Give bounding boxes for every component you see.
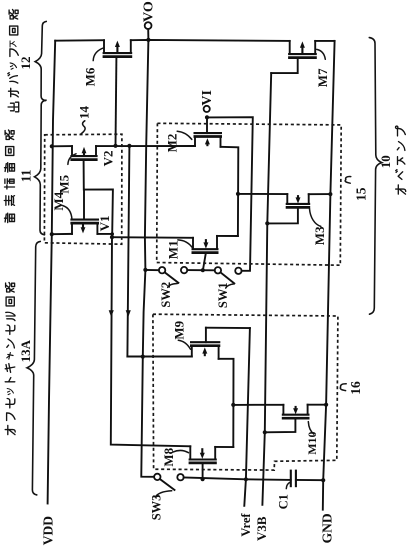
brace 10 (op amp, right side) [369,38,382,315]
label C1 leader hook [286,482,290,488]
wire sampling node (SW3 right to C1) [184,477,291,480]
wire V3B bias line (M7 gate down to V3B terminal) [262,73,271,505]
node C1 to GND line dot [321,478,325,482]
wire top rail left segment (VDD corner to M6 source) [55,39,104,42]
transistor M4 (PMOS diode-connected) [70,190,99,234]
wire M2 drain to mid vertical [221,147,239,236]
label SW1 leader hook [226,284,234,288]
label SW2 leader hook [168,284,178,288]
svg-text:VO: VO [142,1,157,22]
svg-text:M1: M1 [166,240,181,259]
transistor M5 (PMOS) [70,146,113,234]
wire VO line down to SW3 and M9 [141,270,154,477]
switch SW2 contact circles [159,267,165,273]
switch SW1 blade [221,273,235,284]
label 16 hook [340,384,346,391]
transistor M7 (PMOS) [271,41,317,73]
text kana label: offset cancel circuit (rotated) [5,283,15,435]
label M4 leader hook [63,206,72,220]
transistor M2 (NMOS input) [194,117,223,146]
svg-text:10: 10 [378,155,393,168]
dashed box 15 (M1/M2/M3 group) [157,123,342,265]
wire M3 drain to GND line [309,193,331,195]
wire M1 source wire (V1 node to M1 left lead) [112,236,193,239]
svg-text:13A: 13A [18,339,33,362]
terminal VI circle [204,106,210,112]
transistor M6 (PMOS) [103,40,133,146]
svg-text:C1: C1 [277,494,291,509]
wire diff output to M3 drain [238,193,287,195]
svg-text:V3B: V3B [254,516,269,541]
svg-text:M7: M7 [315,68,330,87]
svg-text:VI: VI [200,90,215,106]
svg-text:V2: V2 [100,151,115,167]
node M4 drain tee dot [110,232,114,236]
switch SW2 blade [165,272,179,282]
wire V2 to M9 drain line [127,146,129,357]
label 14 tilde [81,121,85,134]
label SW3 leader hook [155,491,171,497]
label M5 leader hook [68,154,76,165]
wire M10 left lead wire [233,404,283,406]
wire switch row center [187,269,214,271]
wire VI to SW1 line [207,117,253,271]
wire M9 source to mirror vertical [219,359,234,447]
node VI junction dot [205,115,209,119]
svg-text:12: 12 [18,57,33,70]
wire M9 gate to Vref line [206,327,250,329]
svg-text:SW1: SW1 [216,282,230,308]
switch SW3 contact circles [154,474,160,480]
svg-text:M5: M5 [57,174,72,193]
wire VO stem [147,29,149,40]
wire M8 drain to mirror vertical [215,446,233,448]
label M1 leader hook [178,240,192,247]
wire M5 source to VDD rail [52,145,72,147]
node V2 branch dot [127,144,131,148]
svg-text:14: 14 [77,106,92,120]
wire GND line (right vertical) [323,41,335,510]
node M3 drain on GND line dot [328,192,332,196]
brace 12 (output buffer) [35,21,46,100]
node M1 gate junction dot [201,268,205,272]
node M10 gate on bias line dot [263,430,267,434]
text kanji label: output buffer circuit (rotated) [8,10,19,112]
svg-text:M3: M3 [312,226,327,245]
svg-text:M9: M9 [172,320,187,339]
label M3 leader hook [310,209,321,227]
svg-text:16: 16 [348,381,363,395]
svg-text:SW3: SW3 [149,495,163,521]
svg-text:M2: M2 [165,134,180,153]
svg-text:M6: M6 [83,67,98,86]
svg-text:M10: M10 [305,431,319,454]
label M9 leader hook [178,340,190,349]
brace 13A (offset cancel circuit) [27,241,40,495]
terminal VO circle [145,22,152,29]
svg-text:M8: M8 [161,447,176,466]
label M7 leader hook [317,49,326,59]
node VO/SW2/SW3 junction dot [143,268,147,272]
capacitor C1 [291,470,323,488]
label M8 leader hook [173,450,189,452]
node V1/M1 junction dot [110,235,114,239]
wire M1 drain to mid vertical [217,235,238,237]
node M8 gate junction dot [201,477,205,481]
text kana label: op amp (rotated, right side) [396,126,406,194]
transistor M10 (NMOS) [265,405,310,433]
wire M4 drain to V1 line [97,233,112,235]
svg-text:Vref: Vref [239,513,253,537]
brace 11 (diff amp) [35,100,47,235]
arrow on V1-M8 line [109,310,114,317]
node M5 source dot [50,144,54,148]
wire top rail M7 drain segment to GND line corner [315,40,334,42]
transistor M3 (NMOS) [267,194,310,223]
svg-text:GND: GND [319,513,334,543]
transistor M9 (NMOS, offset-cancel) [190,328,220,359]
svg-text:11: 11 [19,169,34,182]
wire V2 node (M5 drain to M2 source) [96,145,195,147]
svg-text:V1: V1 [97,216,112,232]
node Vref line junction dot [244,477,248,481]
node M6 gate junction dot [113,144,117,148]
wire VO line down to SW2 [145,40,149,270]
wire Vref line down to terminal [244,328,250,506]
wire V1 line down to M8 source wire [111,234,191,446]
wire top rail VO segment (M6 drain to M7 source) [131,40,290,41]
node SW3 line on M9 wire dot [141,355,145,359]
label M10 leader hook [308,422,314,435]
dashed box 14 (M4/M5 pair) [44,134,122,244]
switch SW1 contact circles [215,267,221,273]
node diff output tee dot [236,192,240,196]
text kanji label: differential amplifier circuit (rotated) [4,130,14,223]
wire M10 drain to GND line [308,404,327,406]
label M2 leader hook [177,131,192,139]
svg-text:SW2: SW2 [159,282,173,308]
node M3 gate on bias line dot [265,221,269,225]
transistor M1 (NMOS input) [192,236,219,270]
wire VDD rail (left vertical down to VDD terminal) [48,41,56,504]
label M6 leader hook [93,48,104,61]
svg-text:15: 15 [353,187,368,201]
dashed box 16 (offset cancel group) [153,314,338,470]
node M10 source tee dot [231,403,235,407]
wire M9 drain wire (to V2 line) [127,356,191,358]
node M4 source dot [50,232,54,236]
svg-text:VDD: VDD [41,516,56,545]
label 15 hook [345,177,351,184]
arrow on V2-M9 line [126,310,131,317]
transistor M8 (NMOS) [189,446,217,479]
switch SW3 blade [160,479,174,490]
wire M4 source to VDD rail [52,233,72,235]
wire SW2 left contact [145,269,158,271]
node VO junction dot [146,38,150,42]
node M10 drain on GND dot [324,403,328,407]
